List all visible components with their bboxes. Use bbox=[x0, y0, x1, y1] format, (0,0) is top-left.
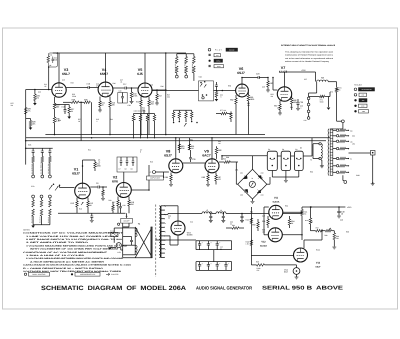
svg-text:6V6: 6V6 bbox=[112, 180, 118, 184]
wire V2 output right bbox=[131, 189, 149, 191]
wire to V7 grid bbox=[272, 78, 274, 91]
wire bridge right bbox=[266, 183, 268, 185]
resistor chain R51 R52 range divider bbox=[176, 54, 178, 57]
svg-text:A HIGH IMPEDANCE AC METER AC: A HIGH IMPEDANCE AC METER AC METER bbox=[30, 260, 105, 263]
terminal C input bbox=[153, 171, 156, 174]
svg-text:CAPACITANCE IN MICROFARADS UNL: CAPACITANCE IN MICROFARADS UNLESS OTHERW… bbox=[23, 264, 131, 267]
svg-text:6SJ7: 6SJ7 bbox=[164, 154, 172, 158]
svg-text:1 DIAL A HUM OF 10 CYCLES: 1 DIAL A HUM OF 10 CYCLES bbox=[26, 254, 86, 257]
resistor R103 left rail bbox=[250, 218, 253, 224]
resistor ladder R21-R23 with rotated labels bbox=[32, 195, 35, 198]
resistor R87 bbox=[215, 173, 217, 176]
wire lamps down bbox=[271, 171, 273, 178]
wire amplitude to V8 bbox=[163, 172, 165, 178]
diode CR2 bbox=[258, 176, 261, 180]
capacitor C17 coupling V4-V5 bbox=[113, 87, 125, 89]
ground ladder bbox=[32, 224, 34, 227]
resistor R104 left rail lower bbox=[250, 240, 253, 246]
wire bridge ground bbox=[252, 199, 254, 201]
transformer T1 tapped secondary bbox=[159, 206, 160, 258]
svg-text:4 VOLTAGES MEASURED BETWEEN I: 4 VOLTAGES MEASURED BETWEEN INDICATED PO… bbox=[26, 244, 128, 247]
transformer T3 attenuator primary bbox=[342, 123, 344, 129]
svg-text:AMPLITUDE: AMPLITUDE bbox=[150, 177, 161, 180]
svg-text:R47: R47 bbox=[159, 95, 162, 98]
svg-text:470K: 470K bbox=[133, 95, 138, 98]
resistor R99 to ground bbox=[332, 230, 335, 232]
svg-text:C26: C26 bbox=[300, 101, 303, 104]
filter choke L3 bbox=[202, 212, 212, 214]
svg-text:220K: 220K bbox=[97, 165, 102, 168]
svg-text:WITH VOLTMETER OF 100 OHMS PER: WITH VOLTMETER OF 100 OHMS PER VOLT MINI… bbox=[30, 248, 119, 251]
resistor R73 on switch bbox=[173, 110, 175, 112]
svg-text:250: 250 bbox=[131, 203, 134, 206]
svg-text:R95: R95 bbox=[256, 261, 259, 264]
svg-text:1M: 1M bbox=[36, 97, 39, 100]
svg-text:C25: C25 bbox=[277, 107, 280, 110]
wire V9 plate to bridge bbox=[211, 138, 213, 159]
svg-text:CONDITIONS OF AC VOLTAGE MEASU: CONDITIONS OF AC VOLTAGE MEASUREMENT bbox=[23, 251, 109, 254]
wire pot down to attenuator bbox=[336, 92, 338, 121]
ac plug P1 bbox=[116, 243, 121, 248]
wire left input vertical bbox=[25, 90, 27, 129]
terminal strip column bbox=[308, 93, 310, 118]
svg-text:300: 300 bbox=[247, 104, 250, 107]
capacitor C42 bbox=[241, 214, 243, 217]
svg-text:C17: C17 bbox=[123, 83, 126, 86]
transformer T1 inner winding bar bbox=[151, 227, 153, 258]
wire V7 plate supply +250 bbox=[284, 72, 286, 87]
svg-text:.01: .01 bbox=[98, 161, 100, 164]
capacitor C23 coupling V6-V7 bbox=[258, 76, 259, 79]
resistor R74 bbox=[178, 110, 180, 112]
svg-text:R45: R45 bbox=[133, 118, 136, 121]
svg-text:6SL7: 6SL7 bbox=[62, 72, 70, 76]
svg-text:2 VOLTAGES MEASURED BETWEEN I: 2 VOLTAGES MEASURED BETWEEN INDICATED PO… bbox=[26, 257, 124, 260]
notes legend screwdriver bbox=[71, 273, 73, 275]
output jack bbox=[371, 151, 376, 156]
svg-text:620: 620 bbox=[142, 109, 145, 112]
svg-text:100K: 100K bbox=[293, 101, 298, 104]
diode CR1 bbox=[244, 176, 248, 179]
ground T3 bbox=[321, 160, 323, 165]
resistor R44 cathode V5 bbox=[140, 97, 142, 100]
svg-text:CHASSIS: CHASSIS bbox=[111, 273, 119, 276]
svg-text:R39: R39 bbox=[84, 99, 87, 102]
wire banks bbox=[213, 250, 215, 262]
wire T2 left to terminals bbox=[316, 82, 318, 93]
resistor R41 cathode V4 bbox=[99, 97, 101, 102]
svg-text:6L6GA: 6L6GA bbox=[260, 245, 267, 248]
wire switch to primary bbox=[122, 223, 124, 227]
wire V3 plate up bbox=[58, 53, 60, 83]
svg-text:R81: R81 bbox=[190, 139, 193, 142]
svg-text:20: 20 bbox=[168, 217, 170, 220]
wire top supply bus bbox=[53, 52, 186, 54]
capacitor C30 bbox=[189, 158, 192, 159]
svg-text:R41: R41 bbox=[110, 118, 113, 121]
filter choke L4 bbox=[212, 213, 216, 215]
wire chain to switch bbox=[193, 78, 195, 81]
potentiometer R98 bbox=[323, 230, 326, 232]
tube V5 bbox=[138, 83, 152, 97]
svg-text:R86: R86 bbox=[202, 176, 205, 179]
svg-text:470: 470 bbox=[218, 178, 221, 181]
notes legend small control bbox=[24, 273, 26, 275]
legend row3 bbox=[209, 60, 211, 62]
svg-text:2 SET RANGE SWITCH TO X10 FRE: 2 SET RANGE SWITCH TO X10 FREQUENCY DIAL… bbox=[26, 238, 122, 241]
resistor R12 below V1 bbox=[76, 198, 78, 202]
svg-text:CR1: CR1 bbox=[235, 169, 238, 172]
wire junction column bbox=[80, 102, 82, 140]
potentiometer R74 bbox=[336, 84, 338, 88]
svg-text:R46: R46 bbox=[161, 85, 164, 88]
transformer T1 primary winding top bbox=[135, 228, 137, 237]
wire T3 top bbox=[332, 128, 343, 130]
resistor R43 grid V5 bbox=[131, 88, 133, 92]
svg-text:1M: 1M bbox=[191, 147, 194, 150]
resistor R85 below V8 bbox=[170, 173, 172, 176]
notes legend chassis bbox=[106, 273, 110, 275]
svg-text:10: 10 bbox=[341, 213, 343, 216]
meter M1 bbox=[249, 181, 255, 187]
resistor R93 between V11 V12 bbox=[257, 219, 259, 222]
tube V12 bbox=[268, 228, 282, 242]
svg-text:R94: R94 bbox=[285, 205, 288, 208]
resistor chain R53 R54 bbox=[185, 54, 187, 57]
transformer T1 primary winding bottom bbox=[135, 245, 137, 255]
svg-text:C13: C13 bbox=[62, 79, 65, 82]
wire plug leads bbox=[113, 237, 115, 243]
svg-text:150: 150 bbox=[352, 143, 355, 146]
resistor R20 cluster bbox=[112, 203, 114, 206]
terminal power bbox=[118, 223, 120, 225]
tube V13 6SJ7 bbox=[294, 248, 308, 262]
svg-text:C15: C15 bbox=[62, 106, 65, 109]
electrolytic bank row2 bbox=[196, 261, 232, 263]
legend row2 bbox=[209, 54, 211, 56]
wire range bus left bbox=[26, 147, 53, 149]
ballast lamp DS2 bbox=[281, 151, 290, 170]
electrolytic bank row1 bbox=[196, 240, 232, 242]
svg-text:C23: C23 bbox=[256, 73, 259, 76]
attenuator taps bbox=[333, 129, 337, 131]
capacitor C21 on switch bbox=[215, 85, 218, 86]
svg-text:P I L O T: P I L O T bbox=[215, 49, 222, 52]
wire R31 to grid bbox=[48, 67, 50, 90]
wire bridge top bbox=[252, 156, 254, 169]
wire V13 top bbox=[303, 240, 305, 248]
svg-text:C23: C23 bbox=[262, 86, 265, 89]
wire V5 output right bbox=[152, 89, 166, 91]
resistor R36 below bbox=[53, 117, 56, 123]
resistor R96 output divider bbox=[257, 264, 265, 267]
resistor R94 feedback bbox=[289, 216, 291, 219]
svg-text:510: 510 bbox=[54, 59, 57, 62]
wire to V14 bbox=[296, 265, 298, 268]
resistor R42 bbox=[109, 101, 112, 107]
resistor group R48 multiplier bbox=[134, 113, 155, 115]
wire signal to V6 bbox=[214, 90, 236, 92]
wire V11 V12 column bbox=[301, 207, 303, 210]
resistor R38 horizontal bbox=[71, 101, 79, 104]
resistor R75 bbox=[185, 110, 187, 112]
ground output bbox=[371, 184, 375, 186]
resistor R62 cathode bbox=[235, 95, 237, 98]
svg-text:R = OHMS RESISTANCE W =: R = OHMS RESISTANCE W = WATTS RATING bbox=[23, 267, 104, 270]
resistor R81 bbox=[188, 144, 190, 150]
tube V3 bbox=[52, 83, 66, 97]
capacitor bank C1 range bbox=[32, 148, 34, 151]
chassis boundary dashed bbox=[155, 205, 157, 278]
wire secondary to V10 cathode bbox=[164, 235, 170, 237]
wire V14 ground bbox=[296, 274, 298, 277]
resistor R47 output load bbox=[156, 90, 158, 94]
capacitor C15 bypass bbox=[64, 110, 67, 111]
wire S2 to V1 grid bbox=[60, 187, 75, 189]
svg-text:B3: B3 bbox=[300, 147, 302, 150]
resistor R18 bbox=[128, 197, 130, 201]
svg-text:L3: L3 bbox=[206, 209, 208, 212]
svg-text:C6: C6 bbox=[96, 182, 98, 185]
svg-text:R62: R62 bbox=[230, 99, 233, 102]
svg-text:R58: R58 bbox=[228, 85, 231, 88]
svg-text:.1: .1 bbox=[96, 120, 97, 123]
svg-text:C27: C27 bbox=[304, 78, 307, 81]
tube V6 bbox=[236, 84, 249, 97]
svg-text:470: 470 bbox=[96, 85, 99, 88]
terminal legend 450 bbox=[354, 99, 356, 101]
svg-text:R82: R82 bbox=[218, 149, 221, 152]
capacitor C16 coupling V3-V4 bbox=[88, 86, 89, 89]
svg-text:3 SET AMPLITUDE TO ZERO: 3 SET AMPLITUDE TO ZERO bbox=[26, 241, 90, 244]
wire output bbox=[349, 152, 371, 154]
svg-text:R66: R66 bbox=[290, 106, 293, 109]
ballast lamp DS1 bbox=[267, 151, 277, 170]
wire frequency range buses bbox=[45, 134, 265, 136]
capacitor bank C3 bbox=[49, 148, 51, 151]
resistor R91 bbox=[267, 216, 269, 219]
resistor R63 grid V7 bbox=[267, 78, 269, 82]
resistor R2 in series bbox=[24, 108, 27, 115]
switch S1 range selector bbox=[199, 81, 214, 101]
capacitor C41 bbox=[222, 214, 224, 217]
resistor R39 horizontal bbox=[84, 101, 91, 104]
wire V2 plate to cap box bbox=[123, 172, 125, 183]
svg-text:R89: R89 bbox=[260, 177, 263, 180]
svg-text:.1: .1 bbox=[300, 107, 301, 110]
capacitor C14 bbox=[52, 59, 55, 60]
tube V7 bbox=[277, 87, 291, 101]
line filter capacitor bbox=[130, 240, 133, 241]
wire V8 plate up bbox=[175, 138, 177, 159]
resistor R92 bbox=[232, 227, 239, 230]
transformer T3 secondary bbox=[321, 144, 322, 159]
wire bus to switch bbox=[126, 213, 128, 218]
svg-text:R11: R11 bbox=[88, 149, 91, 152]
svg-text:1 LINE VOLTAGE 115V RMS AC PO: 1 LINE VOLTAGE 115V RMS AC POWER LEVELS bbox=[26, 235, 120, 238]
terminal legend cw bbox=[354, 94, 357, 97]
resistor R58 to ground bbox=[215, 92, 218, 98]
svg-text:R44: R44 bbox=[136, 101, 139, 104]
tube V11 bbox=[269, 205, 283, 219]
svg-text:6AC7: 6AC7 bbox=[202, 154, 211, 158]
svg-text:not to be used otherwise or re: not to be used otherwise or reproduced w… bbox=[285, 57, 334, 60]
resistor R73 bbox=[309, 96, 320, 98]
svg-text:6L6GA: 6L6GA bbox=[273, 201, 280, 204]
capacitor C40 bbox=[210, 214, 212, 217]
svg-text:SERIAL 950 B ABOVE: SERIAL 950 B ABOVE bbox=[262, 286, 344, 292]
wire V8 to V9 bbox=[183, 162, 205, 164]
wire secondary to V10 plate bbox=[164, 205, 178, 207]
svg-text:6SJ7: 6SJ7 bbox=[237, 71, 245, 75]
svg-text:250: 250 bbox=[151, 103, 154, 106]
svg-text:R36: R36 bbox=[58, 119, 61, 122]
svg-text:.05: .05 bbox=[44, 85, 46, 88]
capacitor box C7 C8 C9 bbox=[117, 157, 137, 172]
svg-text:C48: C48 bbox=[340, 219, 343, 222]
svg-text:6SJ7: 6SJ7 bbox=[316, 266, 322, 269]
resistor R11 plate load bbox=[94, 160, 96, 162]
wire V13 grid to divider bbox=[321, 231, 323, 240]
tube V10 5U4G bbox=[171, 221, 185, 235]
svg-text:DIFFERENT VIEW OF HEWLETT PACK: DIFFERENT VIEW OF HEWLETT PACKARD TERMIN… bbox=[281, 44, 336, 47]
capacitor C10 on bus bbox=[91, 213, 93, 216]
tube V4 bbox=[98, 82, 113, 97]
tube V2 bbox=[116, 183, 131, 198]
svg-text:R70: R70 bbox=[330, 91, 333, 94]
capacitor plate bypass box V5 bbox=[118, 93, 127, 104]
wire V6 plate up and right bbox=[241, 78, 243, 85]
svg-text:R99: R99 bbox=[346, 231, 349, 234]
svg-text:6J5: 6J5 bbox=[137, 72, 143, 76]
fuse F1 bbox=[111, 232, 119, 236]
svg-text:20: 20 bbox=[230, 223, 232, 226]
legend row1 dial light bbox=[208, 48, 211, 51]
resistor R34 cathode V3 bbox=[54, 97, 56, 103]
wire V4 plate bbox=[105, 53, 107, 82]
wire input rail continues to range bus bbox=[25, 129, 27, 165]
svg-text:R91: R91 bbox=[250, 211, 253, 214]
svg-text:V10: V10 bbox=[190, 221, 193, 224]
svg-text:C16: C16 bbox=[87, 83, 90, 86]
ground R73 bbox=[328, 97, 330, 108]
switch S4 power on-off box bbox=[121, 218, 133, 223]
svg-text:C12: C12 bbox=[38, 91, 41, 94]
switch S3 wafer with contacts bbox=[173, 122, 175, 124]
resistor R31 feedback loop bbox=[48, 53, 57, 67]
wire V1 V2 ground bus bbox=[58, 212, 126, 214]
secondary taps bbox=[161, 205, 164, 207]
svg-text:+250: +250 bbox=[347, 206, 351, 209]
capacitor C6 coupling V1-V2 bbox=[90, 186, 98, 188]
svg-text:R88: R88 bbox=[226, 156, 229, 159]
resistor R101 in line bbox=[301, 210, 304, 216]
svg-text:C20: C20 bbox=[146, 116, 149, 119]
resistor R37 with ground bbox=[68, 105, 70, 108]
svg-text:R85: R85 bbox=[165, 176, 168, 179]
svg-text:8: 8 bbox=[140, 151, 141, 154]
terminal legend gnd bbox=[354, 105, 356, 107]
svg-text:written consent of the Hewlett: written consent of the Hewlett Packard C… bbox=[285, 60, 329, 63]
resistor chain R55 R56 bbox=[193, 54, 195, 57]
wire T3 bottom bbox=[342, 175, 344, 180]
wire V5 plate top bbox=[144, 53, 146, 83]
svg-text:R12: R12 bbox=[71, 202, 74, 205]
resistor R1 to ground bbox=[34, 90, 36, 95]
svg-text:NOTES:: NOTES: bbox=[23, 229, 31, 232]
tube V14 0A3 regulator bbox=[293, 268, 300, 275]
svg-text:R97: R97 bbox=[310, 221, 313, 224]
svg-text:R38: R38 bbox=[72, 99, 75, 102]
wire V1 plate up bbox=[82, 160, 84, 183]
svg-text:R90: R90 bbox=[310, 171, 313, 174]
ballast lamp DS3 bbox=[294, 151, 303, 170]
wire bridge left to R88 bbox=[236, 183, 237, 185]
svg-text:R91: R91 bbox=[262, 220, 265, 223]
ground plug bbox=[111, 246, 117, 248]
wire V8 plate network bbox=[178, 144, 180, 153]
tube V8 bbox=[169, 159, 183, 173]
resistor R86 below V9 bbox=[207, 173, 209, 176]
wire rectifier B+ output bbox=[164, 213, 168, 215]
wire +250 bus right bbox=[302, 206, 345, 208]
svg-text:R42: R42 bbox=[107, 94, 110, 97]
amplitude control box bbox=[147, 176, 164, 180]
svg-text:C19: C19 bbox=[150, 84, 153, 87]
terminal legend amp bbox=[354, 110, 356, 112]
wire V12 to V13 bbox=[251, 255, 293, 257]
svg-text:V11: V11 bbox=[274, 197, 279, 200]
resistor R88 horizontal to meter bbox=[224, 161, 230, 164]
svg-text:L4: L4 bbox=[220, 209, 222, 212]
svg-text:C43: C43 bbox=[262, 215, 265, 218]
svg-text:R40: R40 bbox=[113, 82, 116, 85]
wire lamp bus bbox=[222, 155, 267, 157]
transformer T1 core cross bbox=[135, 227, 152, 258]
svg-text:600: 600 bbox=[167, 96, 170, 99]
legend row4 bbox=[209, 65, 211, 67]
svg-text:T3: T3 bbox=[310, 159, 312, 162]
svg-text:R100: R100 bbox=[316, 249, 320, 252]
resistor R82 V9 grid bbox=[216, 146, 218, 148]
svg-text:1800: 1800 bbox=[250, 98, 254, 101]
resistor R3 lower with ground bbox=[29, 121, 32, 127]
svg-text:R17: R17 bbox=[112, 201, 115, 204]
svg-text:TO A.B.E: TO A.B.E bbox=[354, 83, 363, 86]
svg-text:.5: .5 bbox=[220, 96, 221, 99]
resistor R13 bbox=[87, 198, 89, 202]
terminal legend attenuator bbox=[354, 88, 357, 91]
svg-text:R15: R15 bbox=[150, 161, 153, 164]
resistor R67 cathode V7 bbox=[279, 101, 281, 105]
resistor R76 bbox=[191, 110, 193, 112]
svg-text:maintenance of Hewlett Packard: maintenance of Hewlett Packard equipment… bbox=[285, 54, 333, 57]
junction dots on buses bbox=[54, 134, 56, 136]
resistor R77 horizontal bbox=[221, 112, 227, 115]
capacitor C26 bbox=[297, 103, 300, 104]
capacitor C48 bbox=[338, 207, 340, 211]
potentiometer R19 hum balance bbox=[81, 202, 83, 205]
svg-text:This drawing is intended for t: This drawing is intended for the operati… bbox=[285, 50, 333, 53]
wire V3 out right bbox=[66, 87, 88, 89]
svg-text:.01: .01 bbox=[120, 81, 122, 84]
tube V9 bbox=[205, 159, 219, 173]
tube V1 bbox=[75, 183, 91, 199]
meter bridge rectifier diamond bbox=[238, 169, 267, 199]
resistor R17 cathode V2 bbox=[117, 197, 119, 201]
node input line bbox=[26, 89, 53, 91]
resistor R45 bbox=[148, 100, 151, 106]
